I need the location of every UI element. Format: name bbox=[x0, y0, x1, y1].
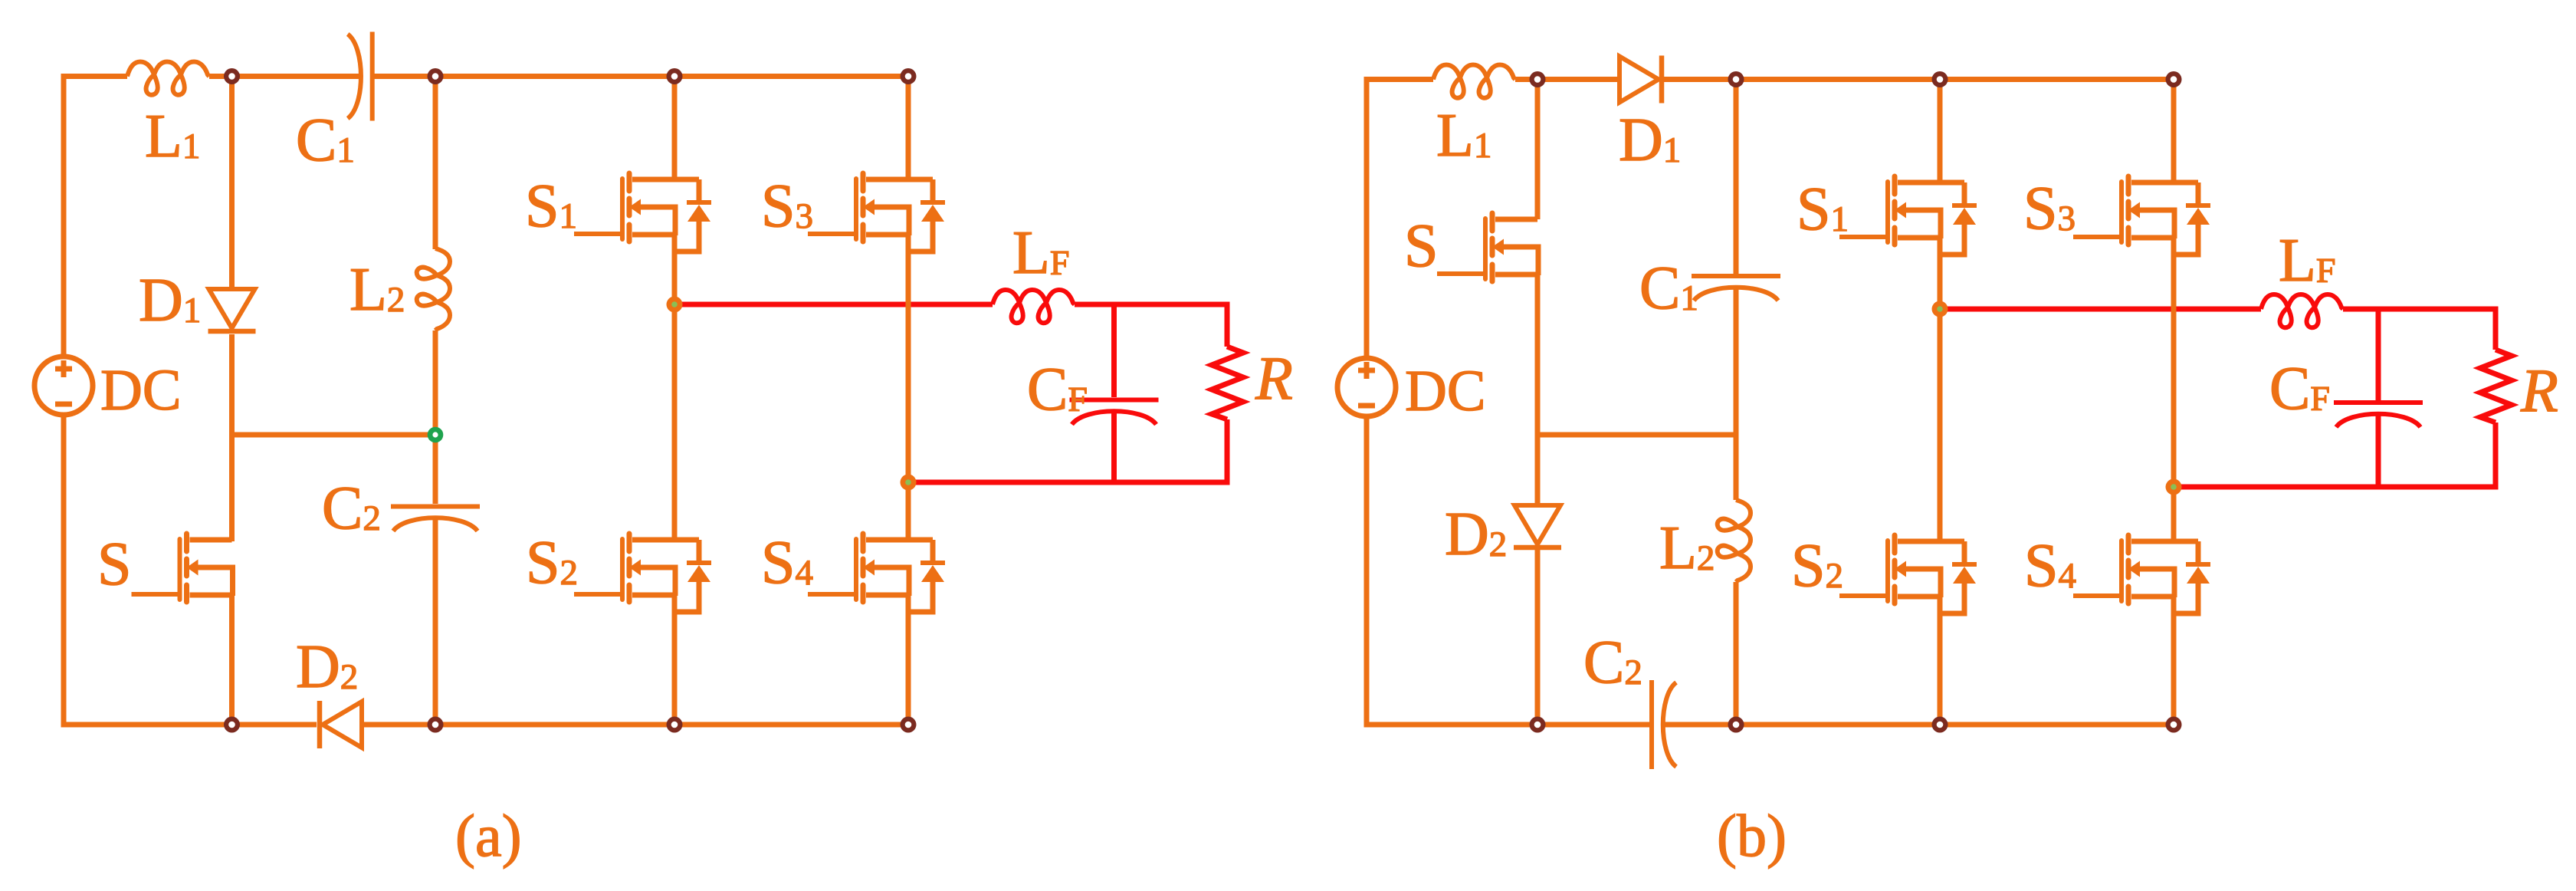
wire: (b) D2 cathode to bottom rail bbox=[1535, 550, 1541, 725]
wire: (a) node A down to D1 anode bbox=[229, 77, 235, 290]
svg-text:LF: LF bbox=[1012, 219, 1069, 287]
wire: (a) S2 source to bottom rail bbox=[672, 595, 678, 725]
svg-text:S4: S4 bbox=[2024, 532, 2076, 600]
resistor R (a) bbox=[1212, 347, 1243, 419]
inductor L2 (a) bbox=[417, 248, 450, 330]
node: (a) bottom rail at C2 branch bbox=[428, 717, 444, 733]
inductor LF (b) bbox=[2261, 294, 2343, 327]
wire: (b) S2 source to bottom rail bbox=[1938, 597, 1943, 725]
node: (b) bottom rail at L2 branch bbox=[1728, 717, 1744, 733]
node: (b) bottom rail at S2 leg bbox=[1932, 717, 1948, 733]
svg-text:L1: L1 bbox=[145, 103, 200, 170]
svg-text:S2: S2 bbox=[526, 529, 578, 597]
diode D1 (a) bbox=[208, 289, 256, 331]
wire: (b) S drain from top node bbox=[1535, 80, 1541, 220]
wire: (b) C1 bottom to L2 coil bbox=[1734, 288, 1739, 500]
wire: (a) red CF branch bottom bbox=[1111, 411, 1117, 482]
node: (a) bottom rail at S branch bbox=[224, 717, 240, 733]
wire: (a) S1 drain from top rail bbox=[672, 77, 678, 180]
MOSFET S3 (b) bbox=[2073, 176, 2210, 255]
wire: (b) top rail from D1 to S3 leg bbox=[1664, 77, 2174, 82]
wire: (a) S3 leg crossing over red output bbox=[906, 293, 911, 316]
svg-text:C2: C2 bbox=[1583, 629, 1642, 696]
node: (b) bottom rail at S4 leg bbox=[2166, 717, 2182, 733]
MOSFET S1 (b) bbox=[1839, 176, 1977, 255]
DC source V1 (a) bbox=[34, 357, 93, 415]
svg-text:(a): (a) bbox=[455, 802, 522, 869]
node: (a) output node S3/S4 midpoint bbox=[901, 475, 917, 491]
node: (a) bottom rail at S4 leg bbox=[901, 717, 917, 733]
wire: (a) node B down to L2 coil bbox=[433, 77, 438, 250]
MOSFET S (b) bbox=[1437, 213, 1538, 281]
capacitor CF (a) bbox=[1070, 400, 1159, 425]
wire: (b) C1 branch from top node bbox=[1734, 80, 1739, 275]
wire: (a) L2 to C2 top plate through green node bbox=[433, 330, 438, 504]
svg-text:DC: DC bbox=[100, 358, 182, 422]
svg-text:S4: S4 bbox=[761, 529, 813, 597]
wire: (a) top rail from L1 to C1 left plate bbox=[209, 74, 361, 79]
svg-text:D2: D2 bbox=[296, 633, 358, 701]
capacitor C2 (a) bbox=[391, 507, 480, 531]
inductor L1 (a) bbox=[127, 62, 209, 95]
wire: (a) C2 bottom to bottom rail bbox=[433, 518, 438, 725]
wire: (a) S3 source to S4 drain through output node bbox=[906, 235, 911, 541]
MOSFET S3 (a) bbox=[808, 173, 945, 252]
wire: (b) top-left from L1 to left rail down to DC+ bbox=[1367, 80, 1433, 359]
svg-text:S: S bbox=[1404, 212, 1439, 280]
svg-text:L1: L1 bbox=[1436, 102, 1491, 169]
svg-text:C1: C1 bbox=[296, 107, 355, 174]
svg-text:D2: D2 bbox=[1445, 501, 1507, 568]
resistor R (b) bbox=[2480, 350, 2512, 422]
svg-text:C2: C2 bbox=[322, 475, 381, 542]
diode D1 (b) bbox=[1619, 56, 1662, 104]
MOSFET S2 (a) bbox=[574, 534, 711, 612]
wire: (b) S1 source to S2 drain through output node bbox=[1938, 238, 1943, 543]
svg-text:DC: DC bbox=[1405, 359, 1486, 423]
svg-text:S1: S1 bbox=[525, 173, 577, 240]
node: (a) bottom rail at S2 leg bbox=[667, 717, 683, 733]
wire: (b) red CF branch bottom bbox=[2376, 414, 2381, 487]
wire: (b) S1 drain from top rail bbox=[1938, 80, 1943, 183]
svg-text:C1: C1 bbox=[1639, 255, 1698, 322]
wire: (a) D1 cathode down to S drain bbox=[229, 334, 235, 541]
diode D2 (a) bbox=[320, 701, 362, 748]
wire: (b) S4 source to bottom rail bbox=[2171, 597, 2177, 725]
svg-text:R: R bbox=[1255, 345, 1293, 413]
node: (a) green junction at L2/C2 bbox=[428, 427, 444, 443]
capacitor C1 (b) bbox=[1692, 276, 1780, 301]
MOSFET S1 (a) bbox=[574, 173, 711, 252]
svg-text:CF: CF bbox=[2269, 355, 2330, 422]
wire: (a) top-left from L1 to left rail down to DC+ bbox=[64, 77, 127, 357]
wire: (b) S3 leg crossing over red output bbox=[2171, 298, 2177, 321]
node: (a) output node S1/S2 midpoint bbox=[667, 297, 683, 313]
svg-text:S2: S2 bbox=[1791, 532, 1843, 600]
wire: (b) red load bottom corner to S3/S4 node bbox=[2174, 422, 2496, 487]
wire: (b) mid junction wire bbox=[1537, 432, 1736, 438]
node: (b) top rail at S3 leg bbox=[2166, 71, 2182, 87]
node: (b) output node S3/S4 midpoint bbox=[2166, 479, 2182, 495]
MOSFET S4 (a) bbox=[808, 534, 945, 612]
svg-text:S: S bbox=[97, 531, 132, 598]
node: (b) top rail at C1 branch bbox=[1728, 71, 1744, 87]
MOSFET S4 (b) bbox=[2073, 535, 2210, 613]
DC source V1 (b) bbox=[1337, 358, 1396, 416]
svg-text:S3: S3 bbox=[761, 173, 813, 240]
node: (b) output node S1/S2 midpoint bbox=[1932, 301, 1948, 317]
capacitor C1 (a) bbox=[348, 32, 372, 121]
svg-text:LF: LF bbox=[2279, 227, 2335, 294]
node: (b) bottom rail at D2 branch bbox=[1530, 717, 1546, 733]
capacitor C2 (b) bbox=[1652, 680, 1676, 769]
wire: (a) top rail from C1 to S3 leg bbox=[372, 74, 908, 79]
wire: (a) red output from S1/S2 node to LF bbox=[674, 302, 993, 307]
wire: (b) top rail from L1 to D1 anode bbox=[1515, 77, 1617, 82]
MOSFET S (a) bbox=[132, 534, 233, 602]
wire: (a) red load bottom corner to S3/S4 node bbox=[908, 419, 1227, 482]
inductor L1 (b) bbox=[1433, 65, 1515, 98]
wire: (b) S3 drain from top rail bbox=[2171, 80, 2177, 183]
svg-text:R: R bbox=[2520, 357, 2558, 425]
wire: (a) red CF branch top bbox=[1111, 304, 1117, 397]
wire: (b) bottom rail from C2 to S4 leg bbox=[1662, 722, 2174, 728]
wire: (b) L2 to bottom rail bbox=[1734, 582, 1739, 725]
wire: (a) red from LF to load top corner bbox=[1075, 304, 1227, 347]
wire: (b) left rail below DC to bottom-left corner to C2 left plate bbox=[1367, 416, 1649, 725]
wire: (a) S source down to bottom rail bbox=[229, 595, 235, 725]
wire: (a) left rail below DC to bottom-left corner to D2 cathode bbox=[64, 415, 317, 725]
node: (a) top rail at S3 leg bbox=[901, 68, 917, 84]
wire: (a) S4 source to bottom rail bbox=[906, 595, 911, 725]
wire: (a) S3 drain from top rail bbox=[906, 77, 911, 180]
wire: (b) red output from S1/S2 node to LF bbox=[1940, 307, 2261, 312]
diode D2 (b) bbox=[1514, 505, 1561, 547]
wire: (a) bottom rail from D2 to S4 leg bbox=[364, 722, 908, 728]
node: (a) top rail at L2 branch bbox=[428, 68, 444, 84]
svg-text:D1: D1 bbox=[139, 267, 201, 334]
svg-text:S3: S3 bbox=[2023, 175, 2076, 242]
capacitor CF (b) bbox=[2334, 403, 2423, 427]
node: (a) top rail at S1 leg bbox=[667, 68, 683, 84]
svg-text:D1: D1 bbox=[1619, 107, 1681, 174]
svg-text:S1: S1 bbox=[1797, 176, 1849, 243]
svg-text:(b): (b) bbox=[1717, 802, 1787, 869]
MOSFET S2 (b) bbox=[1839, 535, 1977, 613]
wire: (b) red CF branch top bbox=[2376, 309, 2381, 400]
wire: (b) S3 source to S4 drain through output node bbox=[2171, 238, 2177, 543]
wire: (a) S1 source to S2 drain through output node bbox=[672, 235, 678, 541]
node: (b) top rail at S1 leg bbox=[1932, 71, 1948, 87]
svg-text:L2: L2 bbox=[1659, 515, 1715, 582]
wire: (b) red from LF to load top corner bbox=[2343, 309, 2496, 350]
wire: (a) mid junction from D1 branch to L2/C2 branch bbox=[232, 432, 436, 438]
inductor L2 (b) bbox=[1718, 500, 1751, 582]
svg-text:CF: CF bbox=[1027, 356, 1088, 423]
node: (a) top rail at D1 branch bbox=[224, 68, 240, 84]
wire: (b) S source down to D2 anode bbox=[1535, 275, 1541, 505]
node: (b) top rail at S branch bbox=[1530, 71, 1546, 87]
inductor LF (a) bbox=[993, 290, 1075, 323]
svg-text:L2: L2 bbox=[349, 256, 405, 324]
